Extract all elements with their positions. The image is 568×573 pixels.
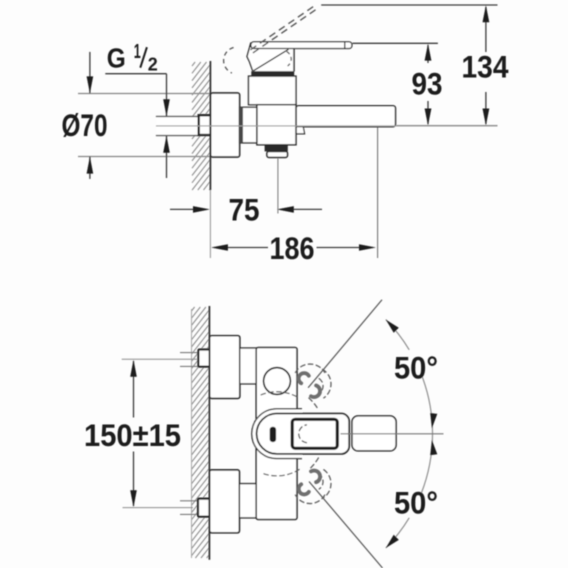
svg-text:75: 75 <box>229 191 260 227</box>
svg-text:Ø70: Ø70 <box>62 107 108 143</box>
svg-text:G: G <box>107 43 126 74</box>
svg-text:2: 2 <box>148 53 158 74</box>
svg-text:134: 134 <box>462 48 509 84</box>
svg-text:186: 186 <box>270 230 315 266</box>
svg-text:150±15: 150±15 <box>84 417 181 453</box>
svg-text:50°: 50° <box>394 349 438 385</box>
svg-text:93: 93 <box>412 66 443 102</box>
svg-text:1: 1 <box>134 41 141 63</box>
svg-text:50°: 50° <box>394 485 438 521</box>
